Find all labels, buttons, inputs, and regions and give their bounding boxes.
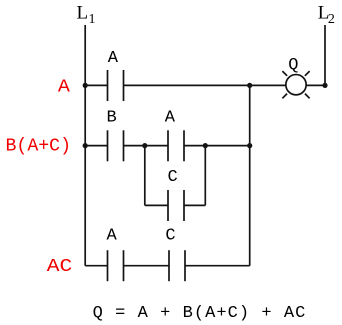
svg-text:Q: Q (288, 56, 298, 75)
svg-text:A: A (165, 109, 176, 128)
svg-text:A: A (108, 49, 119, 68)
svg-text:1: 1 (89, 12, 96, 27)
svg-text:L: L (77, 2, 89, 23)
svg-text:B: B (107, 109, 117, 128)
svg-text:AC: AC (47, 257, 73, 277)
svg-text:B(A+C): B(A+C) (6, 136, 72, 156)
svg-text:2: 2 (328, 12, 335, 27)
svg-text:Q = A + B(A+C) + AC: Q = A + B(A+C) + AC (93, 304, 307, 323)
svg-text:A: A (58, 77, 70, 97)
svg-text:C: C (168, 168, 178, 187)
svg-text:A: A (107, 227, 118, 246)
svg-text:C: C (165, 227, 175, 246)
